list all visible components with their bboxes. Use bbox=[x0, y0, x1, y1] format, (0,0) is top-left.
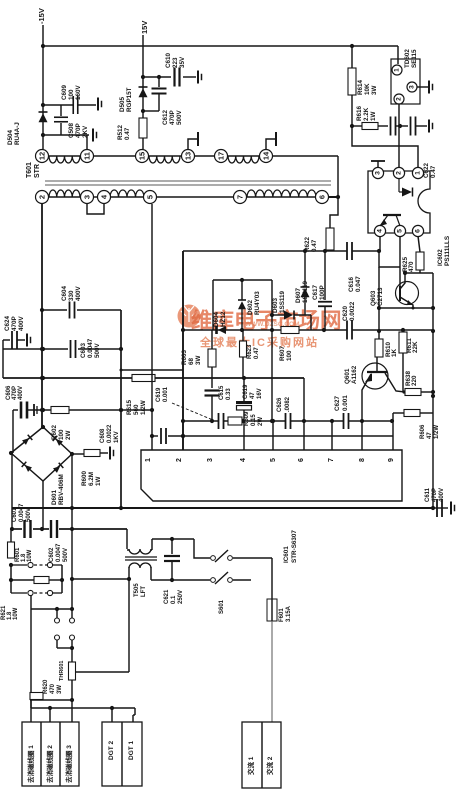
transformer T601 label bbox=[26, 162, 41, 178]
wire line y=700 bbox=[30, 698, 74, 702]
svg-text:0.1: 0.1 bbox=[171, 595, 177, 604]
resistor R615 bbox=[126, 375, 155, 416]
transformer pin 11 bbox=[81, 150, 94, 163]
svg-text:470P: 470P bbox=[169, 110, 176, 125]
svg-text:RGP15T: RGP15T bbox=[126, 87, 133, 112]
svg-text:-15V: -15V bbox=[37, 8, 46, 24]
ground bbox=[429, 120, 433, 133]
wire feedback row y=436 bbox=[168, 434, 393, 438]
IC602 pin 3 bbox=[372, 167, 383, 178]
resistor R623 bbox=[240, 330, 261, 378]
wire Q601 emitter to pin8 bbox=[360, 392, 364, 450]
TD602 pin 3 bbox=[407, 82, 417, 92]
capacitor C617 bbox=[312, 251, 332, 330]
wire R616 row y=126 bbox=[350, 124, 402, 128]
svg-text:0.33: 0.33 bbox=[226, 388, 232, 400]
svg-text:去消磁线圈 2: 去消磁线圈 2 bbox=[45, 745, 54, 783]
svg-text:0.001: 0.001 bbox=[163, 386, 169, 402]
svg-text:400V: 400V bbox=[18, 386, 24, 400]
svg-text:2KV: 2KV bbox=[82, 125, 89, 138]
svg-text:470P: 470P bbox=[75, 123, 82, 138]
svg-text:100P: 100P bbox=[319, 285, 326, 300]
wire -15V rail bbox=[42, 25, 44, 149]
svg-text:3W: 3W bbox=[57, 685, 63, 694]
transformer pin 4 bbox=[98, 191, 111, 204]
svg-text:2: 2 bbox=[176, 458, 183, 462]
svg-text:6: 6 bbox=[318, 195, 327, 199]
svg-text:7: 7 bbox=[328, 458, 335, 462]
svg-text:T505: T505 bbox=[134, 583, 140, 597]
IC IC601 STR-S6307 body bbox=[141, 450, 402, 563]
svg-text:500V: 500V bbox=[63, 548, 69, 562]
svg-text:DGT 1: DGT 1 bbox=[128, 740, 135, 760]
wire degauss line y=708 bbox=[31, 706, 135, 722]
capacitor C612 bbox=[143, 77, 183, 125]
zener D604 bbox=[213, 311, 227, 334]
svg-text:2: 2 bbox=[396, 171, 403, 175]
resistor R606 bbox=[393, 410, 440, 440]
svg-text:D603: D603 bbox=[272, 297, 279, 313]
svg-text:1: 1 bbox=[394, 68, 401, 72]
resistor R609 bbox=[228, 411, 264, 426]
svg-text:4: 4 bbox=[240, 458, 247, 462]
resistor R601 bbox=[8, 529, 34, 562]
svg-text:250V: 250V bbox=[178, 590, 184, 604]
svg-text:470: 470 bbox=[50, 683, 56, 694]
diode D505 bbox=[119, 87, 148, 112]
svg-text:15V: 15V bbox=[140, 21, 149, 34]
transformer pin 2 bbox=[36, 191, 49, 204]
resistor R614 bbox=[348, 46, 378, 126]
svg-text:STR: STR bbox=[34, 164, 41, 178]
svg-text:400V: 400V bbox=[75, 285, 82, 301]
svg-text:S601: S601 bbox=[219, 599, 225, 614]
fuse F601 bbox=[267, 599, 292, 622]
thermistor THR601 bbox=[59, 661, 76, 722]
svg-text:C608: C608 bbox=[100, 428, 106, 443]
svg-text:1W: 1W bbox=[370, 111, 377, 121]
svg-text:0.047: 0.047 bbox=[355, 276, 362, 292]
svg-text:5: 5 bbox=[146, 195, 155, 199]
svg-text:R614: R614 bbox=[357, 79, 364, 95]
svg-text:17: 17 bbox=[217, 152, 226, 160]
svg-text:3.15A: 3.15A bbox=[286, 605, 292, 622]
transformer T601 primary row bbox=[49, 190, 338, 197]
capacitor C620 bbox=[342, 301, 356, 339]
wire source line y=508 bbox=[12, 506, 433, 510]
connector contacts bbox=[55, 609, 75, 662]
diode D603 bbox=[272, 290, 311, 330]
svg-text:C617: C617 bbox=[312, 284, 319, 300]
TD602 pin 1 bbox=[392, 65, 402, 75]
wire x=272 drop bbox=[270, 280, 274, 423]
svg-text:C603: C603 bbox=[80, 342, 87, 358]
wire IC pin stubs bbox=[244, 378, 393, 450]
svg-text:0.0047: 0.0047 bbox=[56, 543, 62, 562]
relay contact block bbox=[9, 562, 64, 595]
capacitor C621 bbox=[164, 539, 184, 604]
svg-text:LFT: LFT bbox=[141, 586, 147, 597]
wire IC602 pin5 to Q603 base bbox=[399, 236, 401, 287]
capacitor C603 bbox=[71, 338, 102, 358]
svg-text:0.47: 0.47 bbox=[430, 165, 437, 178]
wire pin2 rail x=183 bbox=[181, 251, 185, 450]
svg-text:C619: C619 bbox=[243, 384, 249, 399]
svg-text:10K: 10K bbox=[364, 83, 371, 95]
wire snubber line y=310 bbox=[42, 309, 121, 311]
resistor R602 bbox=[51, 407, 72, 441]
svg-text:7: 7 bbox=[236, 195, 245, 199]
svg-text:13: 13 bbox=[184, 152, 193, 160]
svg-text:0.0047: 0.0047 bbox=[19, 503, 25, 522]
transformer pin 5 bbox=[144, 191, 157, 204]
optocoupler IC602 body bbox=[368, 171, 430, 233]
svg-text:去消磁线圈 3: 去消磁线圈 3 bbox=[64, 745, 73, 783]
capacitor C622 bbox=[391, 117, 438, 179]
wire fuse to connector bbox=[271, 621, 273, 722]
wire rail x=121 bbox=[119, 310, 123, 510]
svg-text:D607: D607 bbox=[295, 287, 302, 303]
capacitor C601 bbox=[12, 503, 32, 538]
svg-text:交流 2: 交流 2 bbox=[265, 756, 274, 775]
svg-text:C627: C627 bbox=[334, 395, 341, 411]
capacitor C610 bbox=[165, 52, 186, 86]
wire switch to fuse bbox=[233, 558, 272, 599]
svg-text:1KV: 1KV bbox=[114, 431, 120, 443]
ground at IC602 pin 3 bbox=[371, 161, 385, 168]
wire node y=251 bbox=[183, 249, 381, 253]
svg-text:C626: C626 bbox=[277, 397, 283, 412]
svg-text:10W: 10W bbox=[27, 549, 33, 562]
capacitor C624 bbox=[3, 315, 31, 349]
svg-text:500V: 500V bbox=[26, 508, 32, 522]
wire B- riser x=12 bbox=[12, 410, 13, 529]
IC602 label bbox=[437, 236, 451, 266]
wire pin2 rail x=42 bbox=[40, 204, 44, 427]
wire 15V rail bbox=[141, 35, 145, 149]
svg-text:330: 330 bbox=[68, 290, 75, 301]
svg-text:10W: 10W bbox=[13, 607, 19, 620]
wire line y=410 bbox=[30, 408, 154, 412]
diode D607 bbox=[295, 251, 310, 315]
wire TD602 pin2 to optocoupler bbox=[398, 104, 400, 167]
svg-text:4: 4 bbox=[377, 229, 384, 233]
wire -15V feed line y=46 bbox=[41, 44, 398, 48]
svg-text:RU4A-J: RU4A-J bbox=[14, 122, 21, 145]
svg-text:1: 1 bbox=[415, 171, 422, 175]
svg-text:223: 223 bbox=[172, 57, 179, 68]
svg-text:C612: C612 bbox=[162, 109, 169, 125]
svg-text:C610: C610 bbox=[165, 52, 172, 68]
transformer pin 17 bbox=[215, 150, 228, 163]
resistor R638 bbox=[405, 370, 435, 395]
svg-text:D504: D504 bbox=[7, 129, 14, 145]
svg-text:22K: 22K bbox=[412, 341, 419, 353]
svg-text:9: 9 bbox=[388, 458, 395, 462]
ground bbox=[198, 71, 202, 84]
svg-text:220: 220 bbox=[411, 375, 418, 386]
svg-text:0.0047: 0.0047 bbox=[87, 338, 94, 358]
wire pin5 rail x=152 bbox=[150, 204, 154, 450]
transformer pin 13 bbox=[182, 150, 195, 163]
svg-text:Q603: Q603 bbox=[370, 290, 377, 306]
svg-text:160V: 160V bbox=[75, 84, 82, 100]
svg-text:3W: 3W bbox=[195, 355, 202, 365]
diode D602 bbox=[238, 280, 261, 330]
svg-text:47: 47 bbox=[250, 392, 256, 399]
IC602 pin 5 bbox=[394, 225, 405, 236]
wire node y=135 bbox=[41, 133, 89, 137]
switch S601 lower pole bbox=[151, 572, 232, 614]
svg-text:RBV-406M: RBV-406M bbox=[58, 474, 65, 505]
svg-text:C601: C601 bbox=[12, 507, 18, 522]
ground above pin 14 bbox=[266, 132, 276, 149]
svg-text:400V: 400V bbox=[439, 488, 445, 502]
svg-text:1SS119: 1SS119 bbox=[302, 280, 309, 303]
svg-text:0.47: 0.47 bbox=[311, 239, 318, 252]
svg-text:1K: 1K bbox=[391, 348, 398, 357]
svg-text:F601: F601 bbox=[279, 608, 285, 622]
transistor Q603 bbox=[370, 273, 419, 308]
transformer pin 7 bbox=[234, 191, 247, 204]
transformer pin 6 bbox=[316, 191, 329, 204]
diode D504 bbox=[7, 112, 48, 145]
svg-text:C609: C609 bbox=[61, 84, 68, 100]
svg-text:3: 3 bbox=[409, 85, 416, 89]
wire pin14 to R622 bbox=[330, 156, 340, 228]
wire x=212 top bbox=[212, 280, 214, 330]
wire left stub x=3 bbox=[2, 340, 4, 378]
svg-text:100: 100 bbox=[68, 89, 75, 100]
svg-text:全球最大IC采购网站: 全球最大IC采购网站 bbox=[199, 335, 319, 349]
wire feed to TD602 bbox=[397, 46, 399, 64]
IC602 internal LED bbox=[399, 178, 413, 197]
svg-text:RU4Y03: RU4Y03 bbox=[254, 291, 261, 315]
capacitor C602 bbox=[49, 520, 69, 562]
svg-text:2W: 2W bbox=[258, 417, 264, 426]
transformer core bbox=[45, 181, 331, 185]
transformer pin 14 bbox=[260, 150, 273, 163]
wire feedback riser x=379 bbox=[377, 267, 381, 339]
TD602 label bbox=[404, 49, 418, 68]
svg-text:HZ12: HZ12 bbox=[220, 311, 227, 327]
svg-text:8: 8 bbox=[359, 458, 366, 462]
watermark logo bbox=[178, 305, 201, 328]
wire error line y=330 bbox=[181, 328, 433, 332]
svg-text:R600: R600 bbox=[81, 470, 88, 486]
svg-text:400V: 400V bbox=[18, 315, 25, 331]
watermark text bbox=[191, 308, 342, 349]
svg-text:47: 47 bbox=[427, 432, 433, 439]
resistor R512 bbox=[117, 118, 147, 140]
svg-text:1SS119: 1SS119 bbox=[279, 290, 286, 313]
svg-text:THR601: THR601 bbox=[59, 661, 65, 681]
svg-text:3W: 3W bbox=[371, 85, 378, 95]
net 15V label bbox=[140, 21, 149, 34]
svg-text:R616: R616 bbox=[356, 105, 363, 121]
ground above pin 13 bbox=[188, 132, 198, 149]
transistor Q601 bbox=[344, 357, 405, 392]
svg-text:DGT 2: DGT 2 bbox=[108, 740, 115, 760]
capacitor C627 bbox=[334, 395, 349, 429]
IC602 pin 6 bbox=[412, 225, 423, 236]
svg-text:6: 6 bbox=[298, 458, 305, 462]
svg-text:0.001: 0.001 bbox=[342, 395, 349, 411]
svg-text:2.2K: 2.2K bbox=[363, 107, 370, 121]
regulator TD602 SE115 bbox=[391, 59, 420, 104]
wire degauss branch bbox=[31, 596, 74, 708]
connector AC input bbox=[242, 722, 281, 788]
svg-text:.0082: .0082 bbox=[285, 396, 291, 412]
svg-text:1/2W: 1/2W bbox=[434, 425, 440, 439]
svg-text:TD602: TD602 bbox=[404, 49, 411, 68]
svg-text:500V: 500V bbox=[176, 109, 183, 125]
wire switch feed upper bbox=[152, 537, 210, 558]
svg-text:D602: D602 bbox=[247, 299, 254, 315]
svg-text:C619: C619 bbox=[156, 387, 162, 402]
resistor R622 bbox=[304, 228, 334, 252]
wire jog y=267 bbox=[379, 251, 400, 267]
svg-text:0.15: 0.15 bbox=[251, 414, 257, 426]
svg-text:16V: 16V bbox=[257, 388, 263, 399]
capacitor C604 bbox=[61, 285, 82, 318]
resistor R625 bbox=[402, 236, 424, 273]
wire line y=370 bbox=[120, 369, 184, 372]
svg-text:C611: C611 bbox=[425, 487, 431, 502]
wire right rail x=433 bbox=[431, 273, 435, 510]
capacitor C606 bbox=[6, 385, 37, 419]
resistor R610 bbox=[375, 339, 398, 357]
svg-text:C616: C616 bbox=[348, 276, 355, 292]
svg-text:12: 12 bbox=[38, 152, 47, 160]
capacitor C619 electrolytic bbox=[236, 379, 263, 421]
svg-text:去消磁线圈 1: 去消磁线圈 1 bbox=[26, 745, 35, 783]
svg-text:2: 2 bbox=[38, 195, 47, 199]
resistor R620 bbox=[30, 679, 63, 708]
svg-text:1/2W: 1/2W bbox=[140, 400, 147, 415]
svg-text:0.47: 0.47 bbox=[254, 347, 260, 359]
svg-text:R615: R615 bbox=[126, 399, 133, 415]
svg-text:C604: C604 bbox=[61, 285, 68, 301]
svg-text:R609: R609 bbox=[244, 411, 250, 426]
wire jumper pins 3-4 bbox=[87, 204, 104, 214]
wire line y=672 bbox=[76, 671, 129, 673]
svg-text:1W: 1W bbox=[95, 476, 102, 486]
resistor R616 bbox=[356, 105, 388, 129]
wire LFT return y=579 bbox=[72, 577, 131, 581]
svg-text:R512: R512 bbox=[117, 124, 124, 140]
svg-text:C622: C622 bbox=[423, 162, 430, 178]
wire node y=105 bbox=[41, 103, 96, 107]
svg-text:100: 100 bbox=[286, 350, 293, 361]
svg-text:68: 68 bbox=[188, 357, 195, 365]
capacitor C613 bbox=[156, 386, 224, 429]
wire IC602 pin4 drop bbox=[379, 236, 381, 251]
resistor R603 bbox=[181, 330, 216, 388]
svg-text:C615: C615 bbox=[219, 385, 225, 400]
capacitor C628 bbox=[277, 396, 291, 429]
capacitor C609 bbox=[61, 84, 82, 114]
svg-text:C602: C602 bbox=[49, 547, 55, 562]
resistor R611 bbox=[399, 330, 419, 394]
IC602 pin 2 bbox=[393, 167, 404, 178]
svg-text:14: 14 bbox=[262, 151, 271, 160]
svg-text:A1162: A1162 bbox=[351, 365, 358, 384]
transformer T601 secondary row bbox=[49, 156, 338, 163]
svg-text:2: 2 bbox=[396, 97, 403, 101]
svg-text:470P: 470P bbox=[11, 316, 18, 331]
svg-text:R620: R620 bbox=[43, 679, 49, 694]
connector DGT bbox=[102, 722, 142, 786]
capacitor C616 bbox=[347, 242, 362, 292]
svg-text:470P: 470P bbox=[432, 488, 438, 502]
transformer pin 15 bbox=[136, 150, 149, 163]
svg-text:D505: D505 bbox=[119, 96, 126, 112]
svg-text:SE115: SE115 bbox=[411, 49, 418, 68]
svg-text:500V: 500V bbox=[94, 342, 101, 358]
bridge rectifier D601 bbox=[9, 425, 74, 505]
wire pin1 bias bbox=[352, 126, 418, 167]
svg-text:3: 3 bbox=[83, 195, 92, 199]
svg-text:15: 15 bbox=[138, 152, 147, 160]
svg-text:D601: D601 bbox=[51, 489, 58, 505]
wire pin11 riser bbox=[86, 135, 88, 149]
ground at TD602 pin 3 bbox=[417, 81, 433, 94]
svg-text:5: 5 bbox=[270, 458, 277, 462]
wire AC line y=529 bbox=[10, 527, 127, 531]
wire C610 branch bbox=[143, 75, 196, 79]
svg-text:35V: 35V bbox=[179, 56, 186, 68]
wire control row y=421 bbox=[183, 419, 394, 423]
transformer pin 3 bbox=[81, 191, 94, 204]
svg-text:IC602: IC602 bbox=[437, 249, 444, 266]
svg-text:2W: 2W bbox=[65, 430, 72, 440]
svg-text:3: 3 bbox=[375, 171, 382, 175]
resistor R607 bbox=[279, 327, 299, 362]
svg-text:5: 5 bbox=[397, 229, 404, 233]
capacitor C615 bbox=[205, 385, 233, 421]
svg-text:交流 1: 交流 1 bbox=[246, 756, 255, 775]
svg-text:0.47: 0.47 bbox=[124, 127, 131, 140]
svg-text:0.0022: 0.0022 bbox=[107, 424, 113, 443]
svg-text:PS111LLS: PS111LLS bbox=[444, 236, 451, 266]
wire line y=378 bbox=[3, 376, 304, 380]
ground bbox=[98, 98, 102, 111]
svg-text:STR-S6307: STR-S6307 bbox=[291, 530, 298, 563]
TD602 pin 2 bbox=[394, 94, 404, 104]
wire emitter row y=308 bbox=[377, 306, 435, 310]
wire bridge output risers bbox=[43, 454, 72, 529]
wire snubber line y=349 bbox=[3, 347, 121, 351]
net -15V label bbox=[37, 8, 46, 24]
svg-text:R606: R606 bbox=[420, 424, 426, 439]
connector degauss bbox=[22, 722, 79, 786]
capacitor C608 bbox=[100, 424, 166, 444]
svg-text:3: 3 bbox=[207, 458, 214, 462]
svg-text:1: 1 bbox=[145, 458, 152, 462]
line filter T505 bbox=[125, 539, 157, 597]
svg-text:C620: C620 bbox=[342, 305, 349, 321]
svg-text:6: 6 bbox=[415, 229, 422, 233]
wire AC to LFT bbox=[126, 529, 128, 549]
svg-text:T601: T601 bbox=[26, 162, 33, 178]
svg-text:470: 470 bbox=[408, 261, 415, 272]
svg-text:0.0022: 0.0022 bbox=[349, 301, 356, 321]
svg-text:R623: R623 bbox=[247, 344, 253, 359]
svg-text:Q601: Q601 bbox=[344, 368, 351, 384]
svg-text:D604: D604 bbox=[213, 311, 220, 327]
resistor R621 bbox=[1, 577, 62, 621]
